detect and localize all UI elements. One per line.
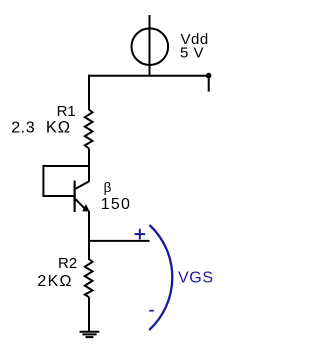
svg-text:R2: R2: [58, 255, 77, 272]
resistor R1: [85, 110, 93, 149]
node junction dot: [206, 73, 212, 79]
ground: [80, 332, 100, 337]
wire feedback top: [43, 165, 89, 167]
wire top rail to R1: [88, 75, 90, 110]
svg-text:VGS: VGS: [178, 269, 214, 286]
voltage source V1 circle: [132, 28, 169, 65]
wire R2 to ground: [88, 297, 90, 332]
svg-text:R1: R1: [57, 103, 76, 120]
wire top rail: [88, 75, 209, 77]
VGS measurement arc: [149, 225, 172, 330]
wire feedback bottom (base lead): [43, 195, 74, 197]
svg-text:2KΩ: 2KΩ: [37, 273, 72, 290]
wire emitter to R2: [88, 211, 90, 260]
wire through voltage source: [149, 15, 151, 76]
resistor R2: [85, 259, 93, 297]
svg-text:β: β: [104, 180, 112, 195]
plus sign: [135, 229, 146, 240]
minus sign: [149, 310, 154, 312]
transistor Q1: [75, 181, 90, 212]
svg-text:KΩ: KΩ: [46, 119, 71, 137]
wire feedback left: [42, 165, 44, 197]
svg-text:2.3: 2.3: [11, 120, 35, 137]
wire emitter node to plus terminal: [88, 240, 150, 242]
wire stub from node: [208, 76, 210, 92]
svg-text:150: 150: [101, 196, 131, 213]
wire R1 to collector: [88, 149, 90, 182]
svg-text:5 V: 5 V: [180, 45, 204, 62]
